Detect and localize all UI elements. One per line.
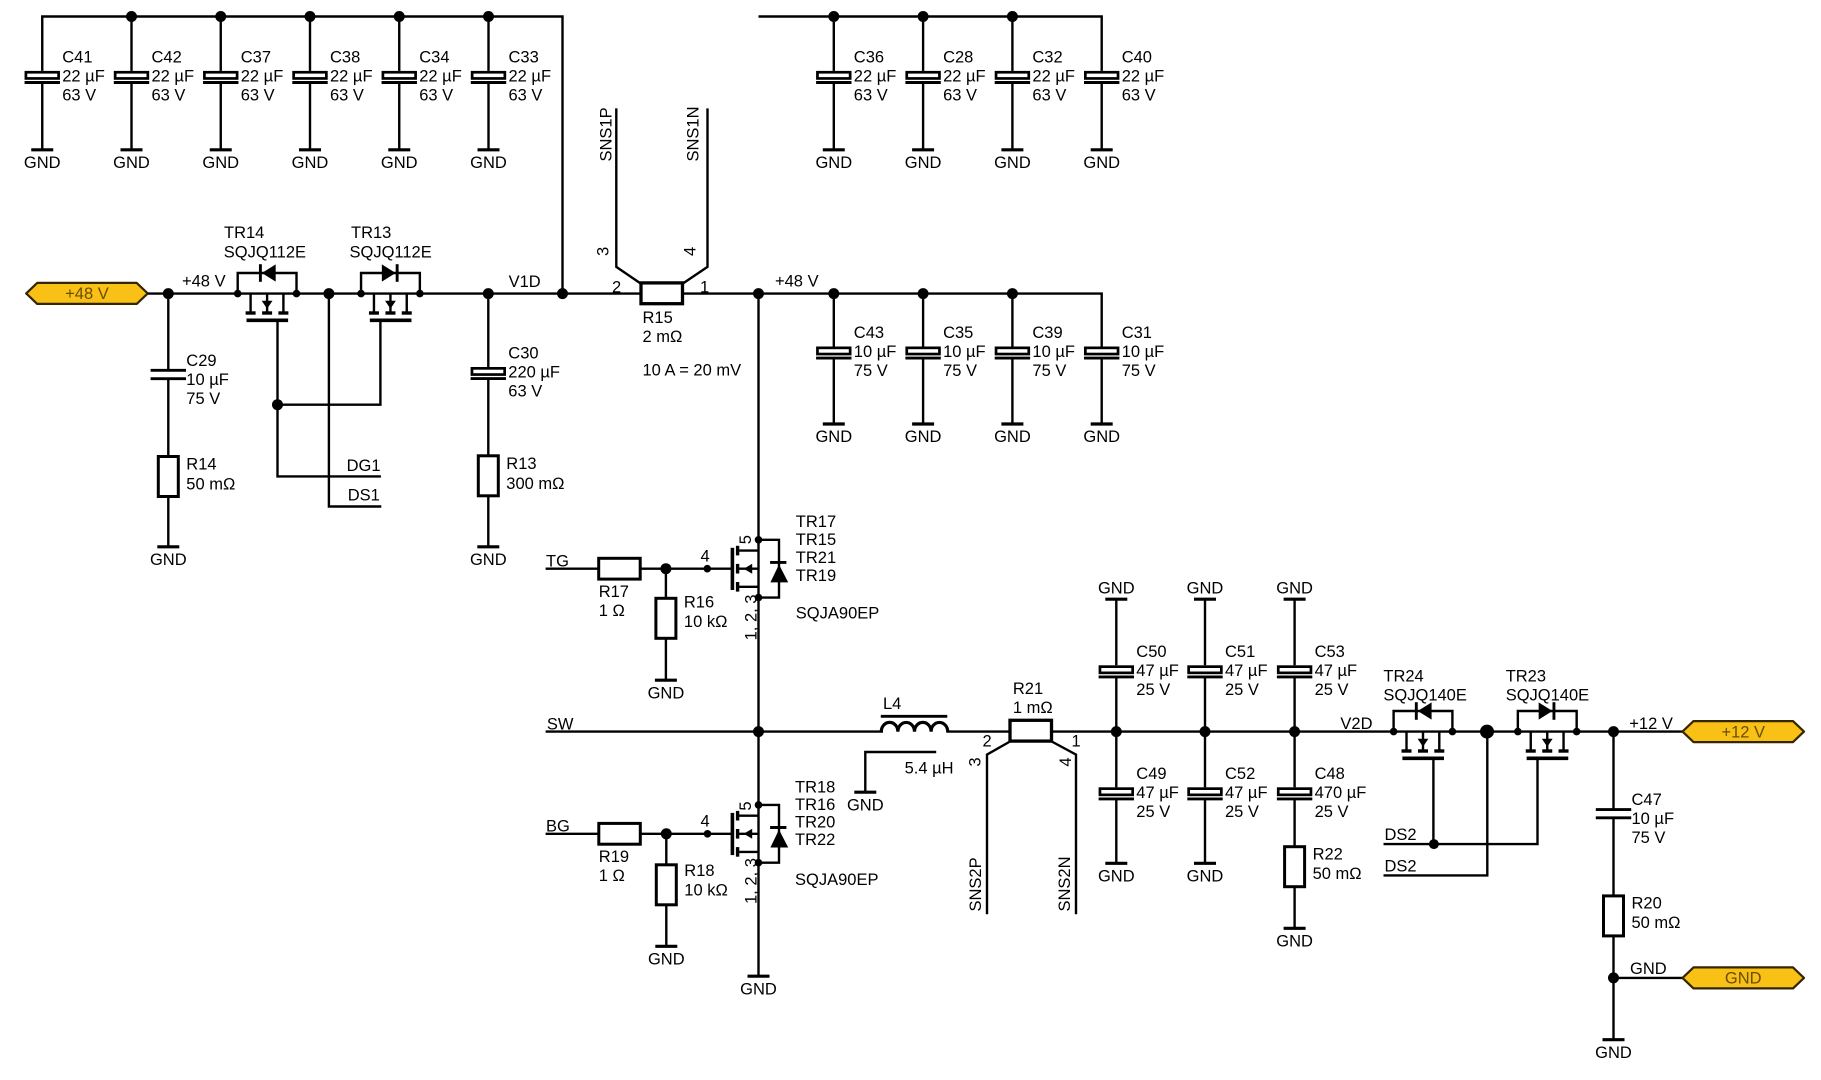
svg-text:C51: C51 — [1225, 643, 1255, 661]
node SNS2P — [967, 857, 985, 911]
ground under R16 — [648, 680, 685, 702]
junction TR24-TR23 common — [1480, 725, 1494, 739]
ground under C40 — [1083, 150, 1120, 172]
label TR18 group — [795, 779, 878, 890]
wire cap drop — [398, 17, 400, 71]
svg-text:C28: C28 — [943, 48, 973, 66]
wire cap drop — [922, 294, 924, 347]
svg-text:GND: GND — [1187, 868, 1224, 886]
capacitor C32 — [995, 48, 1075, 104]
svg-text:50 mΩ: 50 mΩ — [1313, 865, 1362, 883]
wire cap to ground — [487, 84, 489, 150]
ground below cap — [1187, 863, 1224, 885]
transistor TR23 SQJQ140E — [1518, 702, 1577, 758]
svg-text:C32: C32 — [1032, 48, 1062, 66]
capacitor C47 — [1596, 791, 1674, 847]
node +48 V label — [182, 272, 226, 290]
wire cap to ground — [1100, 359, 1102, 424]
resistor R20 — [1604, 895, 1681, 936]
svg-text:75 V: 75 V — [1122, 362, 1156, 380]
wire TG wire — [546, 568, 599, 570]
svg-text:SNS2N: SNS2N — [1056, 856, 1074, 911]
node +12 V label — [1629, 715, 1673, 733]
junction V2D rail — [1111, 726, 1122, 737]
wire cap drop — [309, 17, 311, 71]
junction bus — [126, 11, 137, 22]
pin 4 of R15 — [682, 247, 700, 256]
svg-text:220 µF: 220 µF — [508, 364, 560, 382]
wire SW wire — [546, 730, 883, 732]
transistor TR14 SQJQ112E — [238, 264, 297, 320]
resistor R13 — [478, 455, 564, 496]
pin 2 of R21 — [983, 733, 992, 751]
svg-text:4: 4 — [701, 813, 710, 831]
capacitor C28 — [905, 48, 985, 104]
pin 4 of R21 — [1057, 757, 1075, 766]
junction bus — [1007, 11, 1018, 22]
wire GND node to flag — [1614, 977, 1683, 979]
junction V1D bus tap — [557, 288, 568, 299]
junction C47 node — [1608, 726, 1619, 737]
svg-text:GND: GND — [1083, 154, 1120, 172]
svg-text:C43: C43 — [854, 324, 884, 342]
wire cap drop — [1011, 294, 1013, 347]
junction bus — [828, 11, 839, 22]
svg-text:TR19: TR19 — [796, 567, 836, 585]
junction pin 123 TR18 — [755, 859, 763, 867]
svg-text:R22: R22 — [1313, 846, 1343, 864]
node R15 note — [643, 362, 742, 380]
svg-text:GND: GND — [905, 154, 942, 172]
svg-text:63 V: 63 V — [943, 86, 977, 104]
svg-text:22 µF: 22 µF — [943, 67, 986, 85]
svg-text:V1D: V1D — [509, 273, 541, 291]
junction TR13 drain — [416, 290, 424, 298]
svg-text:GND: GND — [815, 428, 852, 446]
wire C30 to R13 — [487, 380, 489, 456]
wire cap to ground — [309, 84, 311, 150]
wire TR24 gate — [1432, 758, 1434, 844]
ground under C35 — [905, 424, 942, 446]
svg-text:10 µF: 10 µF — [1122, 343, 1165, 361]
wire cap to ground — [922, 84, 924, 150]
pin 5 label TR17 — [737, 535, 755, 544]
resistor R22 — [1285, 846, 1362, 887]
inductor L4 — [881, 695, 954, 777]
svg-text:22 µF: 22 µF — [330, 67, 373, 85]
junction bus — [483, 11, 494, 22]
wire cap to ground — [1011, 359, 1013, 424]
wire cap drop — [833, 17, 835, 71]
svg-text:1 Ω: 1 Ω — [599, 867, 625, 885]
svg-text:SNS1N: SNS1N — [685, 106, 703, 161]
ground above C50 — [1098, 580, 1135, 600]
wire cap down — [1204, 732, 1206, 788]
capacitor C41 — [25, 48, 105, 104]
svg-text:5: 5 — [737, 801, 755, 810]
ground under C39 — [994, 424, 1031, 446]
wire cap drop — [1011, 17, 1013, 71]
svg-text:+48 V: +48 V — [65, 285, 109, 303]
junction SW junction — [753, 726, 764, 737]
junction rail — [828, 288, 839, 299]
svg-text:SQJQ112E: SQJQ112E — [224, 244, 306, 262]
junction GND node — [1608, 972, 1619, 983]
wire cap to ground — [1115, 800, 1117, 863]
svg-text:R15: R15 — [643, 309, 673, 327]
svg-text:10 kΩ: 10 kΩ — [684, 882, 728, 900]
wire cap to ground — [398, 84, 400, 150]
junction TR14-TR13 common — [323, 288, 334, 299]
svg-text:C52: C52 — [1225, 765, 1255, 783]
svg-text:3: 3 — [966, 757, 984, 766]
ground below cap — [1098, 863, 1135, 885]
label TR23 — [1506, 668, 1589, 705]
wire C48 to R22 — [1293, 800, 1295, 847]
svg-text:22 µF: 22 µF — [1122, 67, 1165, 85]
svg-text:63 V: 63 V — [1032, 86, 1066, 104]
svg-text:63 V: 63 V — [62, 86, 96, 104]
wire cap drop — [220, 17, 222, 71]
svg-text:TR15: TR15 — [796, 531, 836, 549]
svg-text:22 µF: 22 µF — [152, 67, 195, 85]
svg-text:50 mΩ: 50 mΩ — [186, 476, 235, 494]
svg-text:SQJA90EP: SQJA90EP — [796, 605, 879, 623]
junction pin 4 TR18 — [704, 830, 712, 838]
wire cap up — [1293, 677, 1295, 731]
svg-text:22 µF: 22 µF — [419, 67, 462, 85]
svg-text:47 µF: 47 µF — [1136, 784, 1179, 802]
svg-text:GND: GND — [1098, 580, 1135, 598]
wire cap to ground — [1100, 84, 1102, 150]
svg-text:GND: GND — [113, 154, 150, 172]
node V2D label — [1340, 715, 1372, 733]
wire +48V rail right — [683, 294, 1102, 347]
svg-text:5: 5 — [737, 535, 755, 544]
svg-text:1, 2, 3: 1, 2, 3 — [742, 858, 760, 904]
svg-text:C42: C42 — [152, 48, 182, 66]
svg-text:GND: GND — [1630, 960, 1667, 978]
junction TR23 source — [1514, 728, 1522, 736]
svg-text:R20: R20 — [1632, 895, 1662, 913]
pin 4 label TR17 — [701, 548, 710, 566]
svg-text:1: 1 — [1072, 733, 1081, 751]
svg-text:47 µF: 47 µF — [1225, 784, 1268, 802]
ground output ground — [1595, 1040, 1632, 1062]
wire DS2 gate net — [1384, 758, 1538, 844]
wire drain trunk — [757, 294, 759, 732]
capacitor C49 — [1099, 765, 1179, 821]
svg-text:TR21: TR21 — [796, 549, 836, 567]
svg-text:C53: C53 — [1315, 643, 1345, 661]
wire R18 top — [665, 834, 667, 865]
ground under C28 — [905, 150, 942, 172]
svg-text:GND: GND — [905, 428, 942, 446]
junction gate tie — [272, 399, 283, 410]
svg-text:TR18: TR18 — [795, 779, 835, 797]
wire cap to ground — [130, 84, 132, 150]
svg-text:C39: C39 — [1032, 324, 1062, 342]
pin 1 of R15 — [700, 278, 709, 296]
svg-text:C37: C37 — [241, 48, 271, 66]
node GND label — [1630, 960, 1667, 978]
capacitor C30 — [471, 345, 560, 401]
svg-text:10 µF: 10 µF — [854, 343, 897, 361]
label TR13 — [350, 224, 432, 262]
svg-text:C47: C47 — [1632, 791, 1662, 809]
svg-text:R21: R21 — [1013, 680, 1043, 698]
wire SW to R21 — [946, 730, 1010, 732]
svg-text:C40: C40 — [1122, 48, 1152, 66]
junction +48V node B — [753, 288, 764, 299]
ground under C42 — [113, 150, 150, 172]
node DS2 a — [1385, 826, 1417, 844]
svg-text:TR20: TR20 — [795, 814, 835, 832]
svg-text:V2D: V2D — [1340, 715, 1372, 733]
svg-text:470 µF: 470 µF — [1315, 784, 1367, 802]
svg-text:75 V: 75 V — [1032, 362, 1066, 380]
pin 5 label TR18 — [737, 801, 755, 810]
svg-text:10 µF: 10 µF — [943, 343, 986, 361]
pin 1 of R21 — [1072, 733, 1081, 751]
capacitor C29 — [151, 352, 229, 408]
svg-text:R19: R19 — [599, 848, 629, 866]
svg-text:GND: GND — [470, 154, 507, 172]
svg-text:TR24: TR24 — [1383, 668, 1423, 686]
wire cap to top gnd — [1115, 599, 1117, 665]
ground under R14 — [150, 547, 187, 569]
wire top bus left — [42, 17, 562, 294]
svg-text:GND: GND — [1595, 1044, 1632, 1062]
capacitor C31 — [1084, 324, 1164, 380]
capacitor C48 — [1277, 765, 1366, 821]
svg-text:SNS2P: SNS2P — [967, 857, 985, 911]
label TR24 — [1383, 668, 1466, 705]
ground under C31 — [1083, 424, 1120, 446]
wire R16 to ground — [665, 638, 667, 680]
capacitor C35 — [905, 324, 985, 380]
capacitor C36 — [816, 48, 896, 104]
svg-text:2: 2 — [612, 278, 621, 296]
svg-text:C34: C34 — [419, 48, 449, 66]
junction DS2 gate tie — [1429, 839, 1439, 849]
junction +48V node A — [163, 288, 174, 299]
capacitor C52 — [1187, 765, 1267, 821]
svg-text:1 mΩ: 1 mΩ — [1013, 699, 1053, 717]
resistor R19 — [599, 823, 641, 885]
svg-text:TR22: TR22 — [795, 831, 835, 849]
svg-text:63 V: 63 V — [508, 383, 542, 401]
svg-text:4: 4 — [1057, 757, 1075, 766]
capacitor C51 — [1187, 643, 1267, 699]
svg-text:GND: GND — [815, 154, 852, 172]
svg-text:SNS1P: SNS1P — [598, 107, 616, 161]
wire cap to ground — [922, 359, 924, 424]
svg-text:63 V: 63 V — [330, 86, 364, 104]
wire C47 branch — [1612, 732, 1614, 810]
wire DG1 stub — [278, 405, 381, 477]
svg-text:R16: R16 — [684, 594, 714, 612]
svg-text:L4: L4 — [883, 695, 901, 713]
svg-text:22 µF: 22 µF — [1032, 67, 1075, 85]
svg-text:2 mΩ: 2 mΩ — [643, 328, 683, 346]
svg-text:GND: GND — [292, 154, 329, 172]
junction V1D node — [483, 288, 494, 299]
capacitor C33 — [471, 48, 551, 104]
power flag GND output — [1683, 967, 1805, 988]
wire R18 to ground — [665, 905, 667, 946]
capacitor C38 — [292, 48, 372, 104]
svg-text:C38: C38 — [330, 48, 360, 66]
ground under C37 — [202, 150, 239, 172]
capacitor C37 — [203, 48, 283, 104]
capacitor C39 — [995, 324, 1075, 380]
transistor TR18 TR16 TR20 TR22 SQJA90EP — [732, 805, 788, 863]
svg-text:TR14: TR14 — [224, 224, 264, 242]
svg-text:10 µF: 10 µF — [1032, 343, 1075, 361]
wire SNS1P sense — [616, 108, 641, 283]
svg-text:GND: GND — [202, 154, 239, 172]
svg-text:GND: GND — [1098, 868, 1135, 886]
svg-text:DS1: DS1 — [348, 486, 380, 504]
svg-text:22 µF: 22 µF — [62, 67, 105, 85]
ground under C38 — [292, 150, 329, 172]
svg-text:DS2: DS2 — [1385, 857, 1417, 875]
pin 1,2,3 label TR18 — [742, 858, 760, 904]
node SNS1P — [598, 107, 616, 161]
junction TG-R16 node — [660, 563, 671, 574]
svg-text:GND: GND — [470, 551, 507, 569]
svg-text:3: 3 — [595, 247, 613, 256]
ground under C33 — [470, 150, 507, 172]
capacitor C43 — [816, 324, 896, 380]
wire cap to ground — [1011, 84, 1013, 150]
svg-text:47 µF: 47 µF — [1225, 662, 1268, 680]
svg-text:75 V: 75 V — [854, 362, 888, 380]
svg-text:+12 V: +12 V — [1721, 723, 1765, 741]
svg-text:GND: GND — [648, 951, 685, 969]
label TR17 group — [796, 513, 879, 622]
svg-text:63 V: 63 V — [854, 86, 888, 104]
pin 3 of R21 — [966, 757, 984, 766]
svg-text:4: 4 — [701, 548, 710, 566]
svg-text:25 V: 25 V — [1136, 803, 1170, 821]
svg-text:GND: GND — [1083, 428, 1120, 446]
wire cap up — [1115, 677, 1117, 731]
svg-text:10 A = 20 mV: 10 A = 20 mV — [643, 362, 742, 380]
junction TR13 source — [357, 290, 365, 298]
svg-text:63 V: 63 V — [419, 86, 453, 104]
resistor R17 — [599, 558, 641, 620]
svg-text:TR23: TR23 — [1506, 668, 1546, 686]
transistor TR17 TR15 TR21 TR19 SQJA90EP — [732, 540, 788, 598]
shunt R21 — [1010, 680, 1053, 741]
svg-text:GND: GND — [994, 154, 1031, 172]
svg-text:63 V: 63 V — [241, 86, 275, 104]
ground under R18 — [648, 946, 685, 968]
wire SNS2N sense — [1052, 742, 1076, 915]
svg-text:TR16: TR16 — [795, 796, 835, 814]
junction bus — [215, 11, 226, 22]
wire source trunk — [757, 732, 759, 977]
svg-text:TR17: TR17 — [796, 513, 836, 531]
wire L4 shield — [865, 752, 936, 792]
node SNS1N — [685, 106, 703, 161]
shunt R15 — [641, 283, 683, 346]
svg-text:GND: GND — [1276, 933, 1313, 951]
wire SNS2P sense — [987, 742, 1010, 915]
junction TR14 source — [293, 290, 301, 298]
wire cap to ground — [833, 84, 835, 150]
svg-text:SQJQ112E: SQJQ112E — [350, 244, 432, 262]
junction bus — [918, 11, 929, 22]
wire GND node down — [1612, 978, 1614, 1040]
power flag +48V input — [26, 283, 148, 304]
wire cap up — [1204, 677, 1206, 731]
power flag +12V output — [1683, 721, 1805, 742]
wire V2D wire — [1052, 730, 1683, 732]
node DS1 — [348, 486, 380, 504]
svg-text:2: 2 — [983, 733, 992, 751]
node +48 V label B — [775, 272, 819, 290]
junction bus — [305, 11, 316, 22]
wire R13 to ground — [487, 496, 489, 547]
svg-text:C36: C36 — [854, 48, 884, 66]
resistor R16 — [656, 594, 728, 639]
pin 2 of R15 — [612, 278, 621, 296]
wire cap down — [1115, 732, 1117, 788]
svg-text:75 V: 75 V — [1632, 829, 1666, 847]
wire cap to ground — [1204, 800, 1206, 863]
svg-text:25 V: 25 V — [1225, 803, 1259, 821]
svg-text:SQJQ140E: SQJQ140E — [1383, 687, 1466, 705]
label TR14 — [224, 224, 306, 262]
svg-text:4: 4 — [682, 247, 700, 256]
pin 1,2,3 label TR17 — [742, 595, 760, 641]
svg-text:GND: GND — [994, 428, 1031, 446]
svg-text:50 mΩ: 50 mΩ — [1632, 914, 1681, 932]
svg-text:+12 V: +12 V — [1629, 715, 1673, 733]
svg-text:GND: GND — [1187, 580, 1224, 598]
svg-text:22 µF: 22 µF — [509, 67, 552, 85]
wire cap to ground — [220, 84, 222, 150]
svg-text:63 V: 63 V — [509, 86, 543, 104]
svg-text:R18: R18 — [684, 862, 714, 880]
wire C29 to R14 — [167, 379, 169, 457]
wire R16 top — [665, 569, 667, 599]
wire gate tie — [278, 320, 381, 405]
wire DS1 stub — [329, 294, 381, 507]
svg-text:+48 V: +48 V — [182, 272, 226, 290]
svg-text:GND: GND — [847, 796, 884, 814]
node DG1 — [347, 457, 381, 475]
svg-text:1 Ω: 1 Ω — [599, 602, 625, 620]
wire cap drop — [130, 17, 132, 71]
svg-text:C49: C49 — [1136, 765, 1166, 783]
wire C47 to R20 — [1612, 818, 1614, 896]
resistor R18 — [656, 862, 728, 905]
node V1D label — [509, 273, 541, 291]
svg-text:C29: C29 — [186, 352, 216, 370]
ground TR18 source — [740, 976, 777, 998]
svg-text:+48 V: +48 V — [775, 272, 819, 290]
wire cap drop — [833, 294, 835, 347]
capacitor C53 — [1277, 643, 1357, 699]
svg-text:GND: GND — [740, 980, 777, 998]
pin 3 of R15 — [595, 247, 613, 256]
junction TR24 drain — [1390, 728, 1398, 736]
svg-text:300 mΩ: 300 mΩ — [506, 475, 564, 493]
